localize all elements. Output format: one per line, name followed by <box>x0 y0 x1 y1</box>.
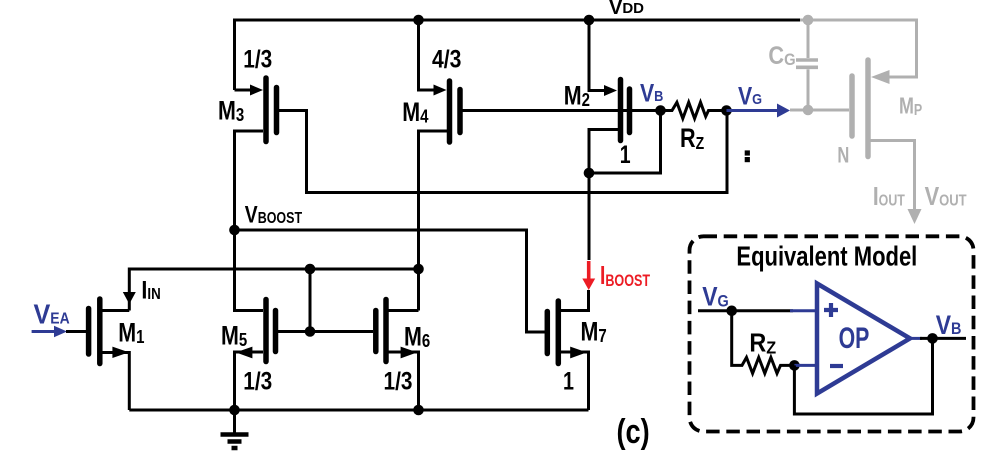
transistor M3 source arrow wire <box>235 89 253 92</box>
transistor M1 label <box>118 318 144 348</box>
wire MP drain to output (gray) <box>870 141 915 213</box>
transistor M2 gate bar <box>627 89 633 133</box>
svg-text:N: N <box>837 143 849 168</box>
inset op-amp plus sign <box>824 303 838 317</box>
wire M2 drain down to M7 drain (IBOOST branch) <box>588 173 591 260</box>
node N label (gray) <box>837 143 849 168</box>
svg-text:1: 1 <box>563 367 574 395</box>
svg-text:IIN: IIN <box>141 276 160 304</box>
svg-text:VEA: VEA <box>34 298 71 330</box>
transistor M4 label <box>402 98 429 128</box>
arrowhead M1 source <box>112 347 128 358</box>
wire M1 drain lead <box>102 309 129 312</box>
value label 1 for M7 <box>563 367 574 395</box>
wire M7 source to ground <box>561 352 589 410</box>
value label 1/3 for M5 <box>243 366 272 394</box>
transistor M7 channel bar <box>556 301 562 364</box>
svg-text:VOUT: VOUT <box>925 182 967 211</box>
wire ground rail <box>129 409 588 412</box>
transistor M6 channel bar <box>383 300 389 362</box>
junction dot ground rail at M5 <box>229 405 240 416</box>
junction dot gray gate node <box>803 105 814 116</box>
node VB label <box>640 79 663 107</box>
transistor M3 label <box>218 96 244 126</box>
svg-text:1/3: 1/3 <box>243 366 272 394</box>
inset feedback wire <box>794 338 932 414</box>
svg-text:OP: OP <box>839 320 870 355</box>
gray output stage: VDD rail extension <box>800 20 917 77</box>
transistor M7 gate bar <box>545 312 551 354</box>
junction dot VG <box>721 105 732 116</box>
transistor M2 source wire from VDD <box>589 20 606 91</box>
transistor MP label (gray) <box>899 93 923 119</box>
current IOUT label (gray) <box>873 182 905 211</box>
current IBOOST red arrow <box>587 261 591 279</box>
inset wire VG to op-amp plus input <box>698 309 793 312</box>
svg-text:VDD: VDD <box>609 0 644 19</box>
junction dot M2 drain <box>584 168 595 179</box>
junction dot M5/M6 gate line <box>305 326 316 337</box>
svg-text:IOUT: IOUT <box>873 182 905 211</box>
resistor RZ label <box>680 124 704 154</box>
wire MP gate from VG (gray) <box>790 109 849 112</box>
equivalent model inset dashed box <box>690 236 974 431</box>
junction dot VB <box>655 105 666 116</box>
current IBOOST label <box>600 260 650 290</box>
inset resistor RZ <box>732 311 795 374</box>
resistor RZ <box>661 102 727 118</box>
transistor M6 gate bar <box>373 311 379 352</box>
svg-text:CG: CG <box>768 42 795 70</box>
wire VG blue arrow <box>727 109 781 112</box>
wire M5 gate to M6 gate <box>278 330 374 333</box>
value label 1 for M2 <box>620 141 631 169</box>
svg-text:IBOOST: IBOOST <box>600 260 650 290</box>
inset node VB label <box>936 310 962 340</box>
junction dot VBOOST <box>229 225 240 236</box>
svg-text:VB: VB <box>936 310 962 340</box>
capacitor CG label (gray) <box>768 42 795 70</box>
wire IIN node line M1 drain to M4 drain <box>129 269 418 311</box>
wire M7 drain lead <box>561 290 589 311</box>
transistor M4 gate bar <box>457 90 463 133</box>
node VBOOST label <box>245 200 303 228</box>
inset node VG label <box>702 282 729 312</box>
arrowhead M6 source <box>401 347 418 359</box>
arrowhead VOUT (gray) <box>908 209 922 224</box>
current IIN label <box>141 276 160 304</box>
svg-text:M4: M4 <box>402 98 429 128</box>
transistor M2 channel bar <box>618 80 624 141</box>
inset title Equivalent Model <box>736 241 917 272</box>
wire M3 drain down to VBOOST and M5 drain <box>235 131 264 311</box>
label (c) <box>617 412 650 451</box>
junction dot on VDD above M4 <box>413 15 424 26</box>
junction dot on VDD above M2 <box>584 15 595 26</box>
arrowhead VG <box>777 104 790 118</box>
svg-text:Equivalent Model: Equivalent Model <box>736 241 917 272</box>
transistor M7 label <box>581 317 607 347</box>
svg-text:VG: VG <box>738 82 762 110</box>
wire M1 source to ground rail <box>102 353 129 411</box>
junction dot ground rail at M6 <box>413 405 424 416</box>
arrowhead MP source (gray) <box>871 70 890 84</box>
wire M5 source to ground <box>235 352 264 410</box>
junction dot gray VDD <box>803 15 814 26</box>
transistor M2 source arrowhead <box>604 85 617 96</box>
transistor M5 gate bar <box>273 311 279 352</box>
svg-text:MP: MP <box>899 93 923 119</box>
svg-text:M3: M3 <box>218 96 244 126</box>
arrowhead IIN current down <box>123 292 136 304</box>
inset junction dot VB output <box>927 333 938 344</box>
value label 1/3 for M3 <box>243 44 272 72</box>
arrowhead M7 source <box>570 347 587 359</box>
transistor M1 channel bar <box>97 299 103 364</box>
node VOUT label (gray) <box>925 182 967 211</box>
transistor M5 channel bar <box>263 300 269 362</box>
wire VBOOST rail to M7 gate <box>235 230 546 332</box>
svg-text:4/3: 4/3 <box>432 45 461 73</box>
wire VEA to M1 gate <box>66 330 86 333</box>
svg-text:1/3: 1/3 <box>384 366 413 394</box>
transistor M6 label <box>404 322 430 352</box>
svg-text:(c): (c) <box>617 412 650 451</box>
value label 1/3 for M6 <box>384 366 413 394</box>
inset wire minus input stub <box>794 364 817 367</box>
svg-text:1: 1 <box>620 141 631 169</box>
svg-text:VG: VG <box>702 282 729 312</box>
transistor M3 channel bar <box>263 78 269 142</box>
svg-text:VB: VB <box>640 79 663 107</box>
transistor MP gate bar (gray) <box>849 76 855 136</box>
node VDD label <box>609 0 644 19</box>
svg-text:M6: M6 <box>404 322 430 352</box>
svg-text:RZ: RZ <box>680 124 704 154</box>
wire M6 source to ground <box>389 352 419 410</box>
wire M2 drain loop to VB node <box>589 111 661 174</box>
svg-text:RZ: RZ <box>749 329 776 357</box>
svg-text:VBOOST: VBOOST <box>245 200 303 228</box>
svg-text:M2: M2 <box>564 81 590 111</box>
ground symbol <box>233 410 236 433</box>
svg-text:1/3: 1/3 <box>243 44 272 72</box>
node VEA label <box>34 298 71 330</box>
wire M4 gate line to M2 gate and VB node <box>463 109 661 112</box>
arrowhead M5 source <box>236 347 253 359</box>
wire gate node down to M5/M6 gates <box>309 269 312 332</box>
transistor M5 label <box>221 321 247 351</box>
arrowhead VEA <box>54 326 67 338</box>
junction dot IIN line above M5 gate <box>305 264 316 275</box>
inset op-amp OP triangle <box>817 284 910 394</box>
transistor M4 channel bar <box>447 81 453 142</box>
wire VEA blue arrow <box>32 330 56 333</box>
wire M3 gate to VG node (down, right, up) <box>279 111 727 193</box>
wire M6 drain lead up <box>389 309 419 312</box>
capacitor CG (gray) <box>807 20 810 58</box>
transistor MP channel bar (gray) <box>865 60 871 157</box>
transistor M2 label <box>564 81 590 111</box>
inset junction dot minus input <box>789 360 800 371</box>
inset resistor RZ label <box>749 329 776 357</box>
inset junction dot VG <box>726 306 737 317</box>
value label 4/3 for M4 <box>432 45 461 73</box>
colon ratio mark <box>745 150 750 155</box>
inset output wire <box>910 337 922 340</box>
svg-text:M1: M1 <box>118 318 144 348</box>
transistor M4 source arrowhead <box>434 85 447 96</box>
transistor M3 source arrowhead <box>250 85 263 96</box>
inset op-amp OP label <box>839 320 870 355</box>
svg-text:M5: M5 <box>221 321 247 351</box>
wire M4 drain down to IIN node <box>419 131 448 269</box>
transistor M1 gate bar <box>86 309 92 355</box>
inset op-amp minus sign <box>830 364 843 368</box>
wire VDD rail <box>235 20 801 90</box>
node VG label <box>738 82 762 110</box>
junction dot IIN line at M4/M6 drain <box>413 264 424 275</box>
transistor M3 gate bar <box>274 88 280 133</box>
transistor M4 source wire from VDD <box>419 20 436 90</box>
svg-text:M7: M7 <box>581 317 607 347</box>
